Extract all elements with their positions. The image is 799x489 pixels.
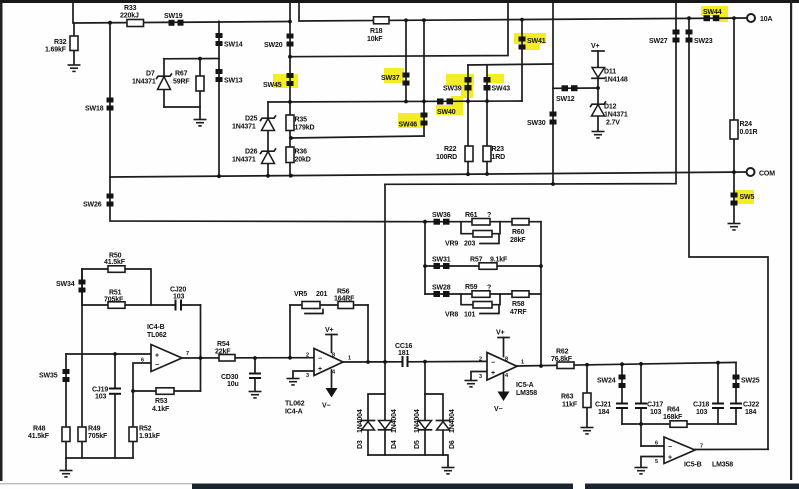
node junction SW12-D11 — [596, 86, 600, 90]
switch SW30 — [527, 112, 557, 128]
capacitor CD30 — [221, 373, 261, 389]
svg-text:D5: D5 — [414, 440, 421, 449]
svg-text:184: 184 — [598, 409, 609, 416]
svg-text:1N4004: 1N4004 — [414, 409, 421, 433]
svg-text:10u: 10u — [227, 381, 239, 388]
svg-text:R53: R53 — [155, 398, 168, 405]
wire SW36 block left rail — [424, 222, 426, 294]
svg-text:181: 181 — [398, 350, 409, 357]
diode D11 — [592, 68, 628, 84]
svg-text:+: + — [155, 353, 159, 360]
resistor R22 — [436, 146, 473, 162]
wire D25/D26 column — [267, 102, 269, 177]
svg-text:SW23: SW23 — [694, 38, 713, 45]
wire riser x385 to IC4-A output and D3/D4 — [384, 184, 386, 455]
diode D5 — [414, 409, 432, 449]
svg-text:COM: COM — [759, 171, 775, 178]
svg-text:D11: D11 — [604, 69, 616, 76]
svg-text:1N4004: 1N4004 — [357, 409, 364, 433]
node junction CJ19 top — [113, 352, 117, 356]
wire filter bottom bus — [622, 423, 736, 425]
node junction clamp line at R23 — [485, 99, 489, 103]
wire top bus left segment — [73, 3, 290, 24]
node junction COM bus at D26 — [266, 174, 270, 178]
svg-text:R49: R49 — [88, 426, 101, 433]
switch SW28 — [432, 285, 451, 298]
svg-text:LM358: LM358 — [516, 390, 537, 397]
node junction clamp line at SW37 — [404, 100, 408, 104]
svg-text:8: 8 — [505, 357, 508, 363]
svg-text:R23: R23 — [492, 146, 505, 153]
svg-text:?: ? — [487, 285, 491, 292]
svg-text:V−: V− — [494, 406, 503, 413]
switch SW18 — [85, 98, 114, 113]
svg-text:−: − — [668, 444, 672, 451]
svg-text:SW14: SW14 — [224, 42, 243, 49]
svg-text:+: + — [668, 455, 672, 462]
wire SW18/SW26 column and bus to SW36 block — [110, 23, 425, 222]
switch SW36 — [432, 212, 451, 225]
svg-text:SW5: SW5 — [740, 194, 755, 201]
ground IC5-A plus input — [465, 381, 478, 387]
svg-text:D3: D3 — [357, 440, 364, 449]
wire SW24/CJ21 column — [621, 364, 623, 424]
diode D12 zener — [591, 102, 628, 127]
switch SW24 — [597, 375, 626, 389]
svg-text:41.5kF: 41.5kF — [28, 433, 50, 440]
resistor R64 — [663, 407, 687, 428]
wire SW36 block right rail to IC5-A output — [540, 222, 542, 366]
capacitor CC16 — [395, 343, 413, 367]
svg-text:220kJ: 220kJ — [120, 13, 139, 20]
wire D7 loop bottom — [164, 106, 200, 108]
resistor R18 — [367, 17, 389, 43]
svg-text:179kD: 179kD — [295, 125, 315, 132]
wire CJ17 column — [640, 364, 642, 446]
svg-text:R48: R48 — [33, 426, 46, 433]
wire COM bus — [110, 172, 746, 177]
power V- for IC5-A — [494, 374, 510, 413]
svg-text:SW13: SW13 — [224, 78, 243, 85]
capacitor CJ22 — [730, 402, 759, 417]
wire IC5-B output line — [695, 448, 768, 450]
wire VR9 risers — [461, 222, 500, 234]
capacitor CJ21 — [595, 402, 628, 417]
svg-text:CD30: CD30 — [221, 374, 239, 381]
svg-text:R33: R33 — [124, 5, 137, 12]
capacitor CJ18 — [693, 402, 724, 417]
svg-text:R62: R62 — [556, 349, 569, 356]
node junction SW20 branch — [288, 55, 292, 59]
switch SW12 — [556, 85, 578, 103]
svg-text:1N4004: 1N4004 — [391, 409, 398, 433]
resistor R51 — [104, 290, 125, 309]
node junction bus-SW18 column — [108, 21, 112, 25]
resistor R32 — [45, 36, 78, 54]
svg-text:R32: R32 — [54, 39, 67, 46]
svg-text:705kF: 705kF — [104, 296, 124, 303]
svg-text:TL062: TL062 — [147, 332, 167, 339]
svg-text:103: 103 — [696, 409, 707, 416]
highlight SW40 — [436, 96, 463, 115]
power V+ for IC5-A — [496, 330, 509, 357]
wire CD30 stub — [254, 358, 256, 391]
svg-text:R35: R35 — [295, 117, 308, 124]
svg-text:2: 2 — [479, 357, 482, 363]
wire R50 loop top — [82, 269, 151, 305]
terminal 10A — [747, 14, 772, 23]
node junction COM bus at R24 — [732, 170, 736, 174]
svg-text:10A: 10A — [760, 16, 772, 23]
resistor R53 — [152, 388, 174, 413]
svg-text:VR5: VR5 — [294, 291, 307, 298]
wire SW23 column and route to IC5-B output — [689, 18, 768, 449]
svg-text:R61: R61 — [465, 212, 478, 219]
svg-text:D12: D12 — [604, 104, 617, 111]
switch SW43 — [484, 77, 511, 93]
svg-text:103: 103 — [95, 393, 106, 400]
node junction output line at CJ18 — [716, 361, 720, 365]
svg-text:V+: V+ — [325, 327, 334, 334]
ground below CD30 — [249, 392, 262, 398]
svg-text:CJ22: CJ22 — [743, 402, 759, 409]
wire SW46 column — [423, 20, 425, 136]
FRAME — [0, 0, 799, 3]
svg-text:CJ19: CJ19 — [92, 386, 108, 393]
power V- for IC4-A — [322, 370, 338, 410]
highlight SW46 — [398, 113, 425, 128]
highlight SW44 — [701, 6, 728, 22]
wire VR5 wiper — [305, 310, 323, 314]
op-amp IC4-B — [141, 324, 189, 372]
resistor R48 — [28, 426, 70, 442]
svg-text:R22: R22 — [444, 146, 457, 153]
svg-text:R36: R36 — [295, 149, 308, 156]
node junction D5 riser on line — [423, 360, 427, 364]
svg-text:1: 1 — [348, 356, 351, 362]
wire IC5-A plus input to ground — [471, 372, 487, 381]
svg-text:SW24: SW24 — [597, 378, 616, 385]
switch SW35 — [39, 369, 70, 382]
resistor R57 — [470, 257, 508, 270]
svg-text:VR8: VR8 — [445, 312, 458, 319]
wire SW39/SW43 branch line — [468, 64, 553, 65]
node junction R53-R52 — [131, 389, 135, 393]
svg-text:R60: R60 — [512, 229, 525, 236]
ground below R63 — [581, 428, 594, 434]
svg-text:1N4371: 1N4371 — [604, 112, 628, 119]
node junction COM bus at R23 — [485, 172, 489, 176]
svg-text:SW30: SW30 — [527, 120, 546, 127]
svg-text:?: ? — [487, 212, 491, 219]
svg-text:1N4371: 1N4371 — [232, 157, 256, 164]
svg-text:201: 201 — [316, 291, 327, 298]
svg-text:+: + — [491, 370, 495, 377]
wire IC5-A output line — [517, 362, 736, 366]
svg-text:8: 8 — [332, 353, 335, 359]
svg-text:1: 1 — [521, 360, 524, 366]
resistor R59 — [465, 284, 491, 298]
svg-text:+: + — [318, 366, 322, 373]
wire CJ19 column — [114, 354, 116, 458]
node junction SW37 top — [404, 18, 408, 22]
node junction CD30 tap — [253, 356, 257, 360]
highlight SW41 — [514, 33, 546, 50]
capacitor CJ17 — [635, 402, 663, 417]
svg-text:CC16: CC16 — [395, 343, 413, 350]
wire IC4-B plus input line — [66, 353, 151, 355]
wire R24/SW5 column — [733, 18, 735, 223]
svg-text:3: 3 — [306, 373, 309, 379]
capacitor CJ20 — [170, 286, 186, 310]
resistor R67 — [173, 71, 204, 92]
wire SW41 column — [521, 20, 523, 101]
switch SW27 — [649, 30, 680, 46]
svg-text:1N4371: 1N4371 — [232, 124, 256, 131]
svg-text:1N4371: 1N4371 — [132, 79, 156, 86]
wire R35 mid tap to SW46 — [291, 136, 424, 138]
node junction output line at SW24 — [620, 362, 624, 366]
ground IC4-A plus input — [287, 379, 300, 385]
wire IC5-B minus input — [641, 445, 664, 447]
svg-text:CJ18: CJ18 — [693, 402, 709, 409]
diode D4 — [379, 409, 399, 449]
wire SW20/SW45/R35/R36 column — [289, 3, 291, 177]
node junction SW23 top — [687, 16, 691, 20]
svg-text:R18: R18 — [370, 28, 383, 35]
svg-text:V+: V+ — [591, 43, 600, 50]
wire CJ20 riser to output — [200, 305, 202, 391]
svg-text:705kF: 705kF — [88, 433, 108, 440]
potentiometer VR9 — [445, 231, 492, 248]
svg-text:4.1kF: 4.1kF — [152, 406, 170, 413]
wire SW34/R49 column — [81, 269, 83, 458]
switch SW5 — [731, 193, 755, 206]
svg-text:R63: R63 — [561, 394, 574, 401]
wire D7 loop top — [164, 58, 219, 60]
wire IC4-A output line to IC5-A input — [343, 360, 487, 363]
resistor R52 — [129, 426, 161, 442]
svg-text:IC5-B: IC5-B — [684, 462, 702, 469]
svg-text:SW27: SW27 — [649, 38, 668, 45]
svg-text:R58: R58 — [512, 301, 525, 308]
switch SW26 — [83, 194, 114, 209]
svg-text:59RF: 59RF — [173, 79, 190, 86]
node junction clamp line at R22 — [466, 99, 470, 103]
wire R53 feedback line — [133, 390, 201, 392]
svg-text:SW43: SW43 — [492, 86, 511, 93]
wire VR5/R56 feedback line — [290, 304, 368, 306]
svg-text:R64: R64 — [667, 407, 680, 414]
wire R63 column — [586, 365, 588, 427]
wire D6 branch — [425, 394, 443, 455]
svg-text:6: 6 — [141, 358, 144, 364]
wire signal line y184 — [385, 183, 676, 186]
diode D6 — [437, 409, 457, 449]
svg-text:10kF: 10kF — [367, 36, 383, 43]
wire SW14/SW13 column — [218, 21, 220, 177]
svg-text:SW34: SW34 — [56, 281, 75, 288]
svg-text:47RF: 47RF — [510, 309, 527, 316]
svg-text:5: 5 — [655, 459, 658, 465]
diode D3 — [357, 409, 375, 449]
wire R67 column — [199, 59, 201, 119]
svg-text:IC5-A: IC5-A — [516, 382, 534, 389]
svg-text:3: 3 — [479, 374, 482, 380]
svg-text:D6: D6 — [449, 440, 456, 449]
switch SW41 — [519, 37, 546, 50]
resistor R35 — [286, 115, 314, 132]
op-amp IC4-A — [285, 349, 351, 416]
highlight SW45 — [273, 74, 298, 88]
resistor R56 — [334, 289, 355, 309]
switch SW20 — [264, 34, 294, 50]
svg-text:SW26: SW26 — [83, 202, 102, 209]
diode D25 zener — [232, 116, 276, 131]
resistor R49 — [78, 426, 108, 442]
svg-text:SW19: SW19 — [164, 13, 183, 20]
switch SW34 — [56, 280, 86, 293]
wire D11/D12 column — [597, 51, 599, 131]
wire row R57 — [425, 265, 541, 267]
power V+ for IC4-A — [325, 327, 337, 353]
node junction R57 row at right rail — [539, 264, 543, 268]
resistor R63 — [561, 393, 591, 409]
resistor R60 — [510, 219, 529, 245]
svg-text:7: 7 — [700, 444, 703, 450]
node junction COM bus at SW13 column — [217, 174, 221, 178]
node junction SW46 top — [422, 18, 426, 22]
svg-text:SW25: SW25 — [741, 378, 760, 385]
switch SW23 — [686, 30, 713, 46]
node junction riser x385 on output — [383, 360, 387, 364]
op-amp IC5-A — [479, 353, 537, 398]
wire IC4-B minus input — [133, 363, 151, 391]
svg-text:−: − — [155, 362, 159, 369]
svg-text:1.69kF: 1.69kF — [45, 47, 67, 54]
svg-text:1RD: 1RD — [492, 154, 506, 161]
svg-text:R67: R67 — [175, 71, 188, 78]
wire D5 column — [424, 362, 426, 455]
switch SW19 — [164, 13, 184, 26]
resistor R36 — [286, 147, 311, 164]
ground below D12 — [592, 132, 605, 138]
svg-text:R59: R59 — [465, 284, 478, 291]
svg-text:IC4-B: IC4-B — [147, 324, 165, 331]
svg-text:CJ17: CJ17 — [647, 402, 663, 409]
wire R32 column — [73, 23, 75, 64]
node junction block rail on IC5-A output — [539, 364, 543, 368]
svg-text:D7: D7 — [146, 71, 155, 78]
svg-text:SW36: SW36 — [432, 212, 451, 219]
svg-text:103: 103 — [173, 293, 184, 300]
wire row R61/R60 — [425, 221, 541, 223]
switch SW44 — [703, 9, 722, 21]
svg-text:SW45: SW45 — [263, 82, 282, 89]
ground IC5-B plus input — [635, 468, 648, 474]
svg-text:203: 203 — [464, 241, 475, 248]
resistor R58 — [510, 291, 529, 316]
wire SW27 column — [675, 3, 677, 184]
svg-text:1N4148: 1N4148 — [604, 77, 628, 84]
ground below R67 — [194, 120, 207, 126]
node junction y184 at SW30 column — [551, 182, 555, 186]
svg-text:SW35: SW35 — [39, 373, 58, 380]
svg-text:20kD: 20kD — [295, 157, 311, 164]
svg-text:103: 103 — [650, 409, 661, 416]
svg-text:7: 7 — [186, 351, 189, 357]
svg-text:IC4-A: IC4-A — [285, 409, 303, 416]
wire VR9 wiper — [480, 235, 499, 244]
svg-text:184: 184 — [745, 409, 756, 416]
switch SW14 — [216, 33, 243, 49]
capacitor CJ19 — [92, 386, 121, 400]
switch SW31 — [432, 257, 451, 270]
svg-text:SW44: SW44 — [703, 9, 722, 16]
svg-text:11kF: 11kF — [562, 402, 578, 409]
svg-text:SW20: SW20 — [264, 42, 283, 49]
resistor R23 — [483, 146, 505, 162]
svg-text:−: − — [318, 356, 322, 363]
svg-text:TL062: TL062 — [285, 401, 305, 408]
svg-text:22kF: 22kF — [215, 348, 231, 355]
potentiometer VR5 — [294, 291, 327, 309]
svg-text:CJ20: CJ20 — [170, 286, 186, 293]
svg-text:R24: R24 — [740, 121, 753, 128]
node junction R24 top — [732, 16, 736, 20]
node junction clamp line at SW20 column — [288, 100, 292, 104]
svg-text:SW46: SW46 — [399, 122, 418, 129]
wire clamp line D25 to SW41 jog — [268, 101, 522, 102]
node junction clamp line at SW46 — [422, 100, 426, 104]
svg-text:CJ21: CJ21 — [595, 402, 611, 409]
ground lower-left bus — [60, 471, 73, 477]
switch SW39 — [443, 77, 472, 93]
diode D26 zener — [232, 149, 276, 164]
resistor R54 — [215, 341, 235, 361]
node junction R35-R36 tap — [289, 136, 293, 140]
svg-text:100RD: 100RD — [436, 154, 457, 161]
op-amp IC5-B — [655, 437, 733, 469]
resistor R62 — [551, 349, 574, 369]
wire IC4-B output to IC4-A input — [182, 357, 314, 359]
svg-text:D25: D25 — [245, 116, 258, 123]
wire SW12 link — [553, 87, 598, 89]
svg-text:9.1kF: 9.1kF — [490, 257, 508, 264]
svg-text:SW31: SW31 — [432, 257, 451, 264]
wire diode clamp ground bus — [368, 455, 448, 467]
resistor R24 — [730, 120, 758, 139]
node junction bus left end SW20 — [288, 20, 292, 24]
wire IC4-A plus input to ground — [293, 371, 314, 378]
node junction VR5 riser — [288, 356, 292, 360]
terminal COM — [747, 168, 776, 178]
highlight SW39 — [446, 74, 474, 98]
svg-text:V+: V+ — [496, 330, 505, 337]
svg-text:SW28: SW28 — [432, 285, 451, 292]
highlight SW5 — [733, 190, 754, 204]
svg-text:LM358: LM358 — [712, 462, 733, 469]
wire R56 riser to IC4-A output — [367, 305, 369, 362]
diode D7 zener — [132, 71, 172, 90]
svg-text:76.8kF: 76.8kF — [551, 356, 573, 363]
wire ground bus lower-left — [66, 391, 133, 470]
switch SW25 — [733, 375, 760, 389]
node junction output line at CJ17 — [639, 362, 643, 366]
wire SW35/R48 column — [65, 354, 67, 458]
ground diode clamp — [442, 468, 455, 474]
ground below R32 — [68, 65, 81, 71]
